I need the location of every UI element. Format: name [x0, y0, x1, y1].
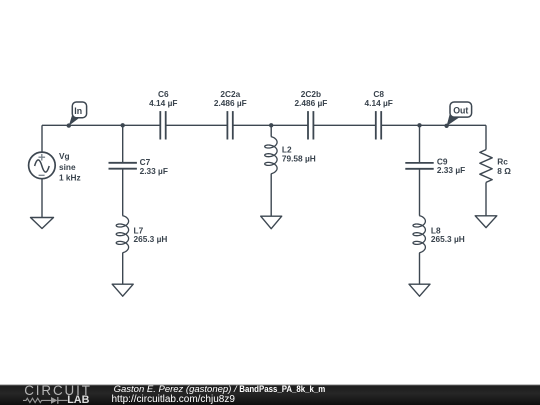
svg-text:LAB: LAB	[67, 394, 89, 405]
svg-text:79.58 µH: 79.58 µH	[282, 154, 316, 164]
svg-text:8 Ω: 8 Ω	[497, 166, 511, 176]
svg-text:1 kHz: 1 kHz	[59, 172, 81, 182]
svg-text:In: In	[74, 106, 82, 116]
svg-text:4.14 µF: 4.14 µF	[149, 98, 177, 108]
svg-text:2.486 µF: 2.486 µF	[214, 98, 247, 108]
svg-text:sine: sine	[59, 162, 76, 172]
svg-text:Vg: Vg	[59, 151, 70, 161]
svg-text:Out: Out	[453, 106, 468, 116]
svg-text:265.3 µH: 265.3 µH	[431, 234, 465, 244]
svg-text:2.33 µF: 2.33 µF	[437, 165, 465, 175]
svg-text:2.33 µF: 2.33 µF	[140, 166, 168, 176]
svg-text:4.14 µF: 4.14 µF	[365, 98, 393, 108]
svg-text:2.486 µF: 2.486 µF	[294, 98, 327, 108]
svg-text:265.3 µH: 265.3 µH	[134, 234, 168, 244]
svg-text:http://circuitlab.com/chju8z9: http://circuitlab.com/chju8z9	[112, 394, 236, 405]
